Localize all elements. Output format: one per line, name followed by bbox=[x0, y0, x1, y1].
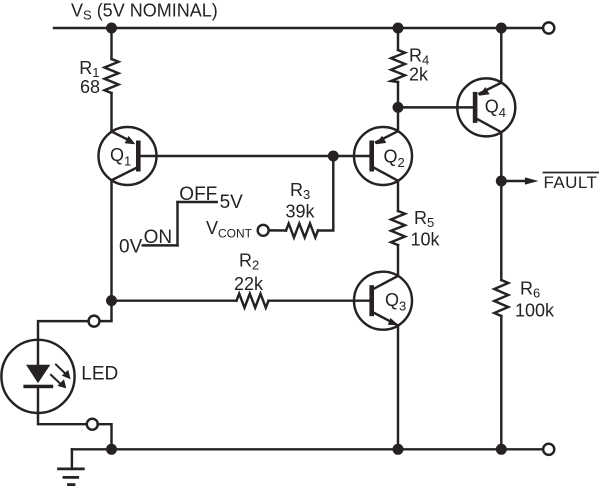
wire LED cathode to bottom terminal bbox=[38, 413, 87, 424]
node: R6 to rail bbox=[496, 444, 507, 455]
wire VCONT circle to R3 bbox=[269, 229, 286, 232]
terminal (open circle) top right bbox=[543, 22, 554, 33]
ground bbox=[59, 449, 84, 484]
wire Q1 base to Q2 base bbox=[141, 155, 370, 157]
arrowhead FAULT bbox=[525, 177, 539, 184]
wire Q1 collector down bbox=[110, 180, 112, 300]
node: base junction with R3 bbox=[328, 151, 339, 162]
node: rail to R4 junction bbox=[393, 23, 404, 34]
waveform: low level line bbox=[143, 244, 178, 246]
svg-text:R3: R3 bbox=[290, 180, 310, 202]
waveform: step edge bbox=[176, 202, 178, 245]
svg-text:VCONT: VCONT bbox=[206, 218, 253, 241]
transistor Q1 (PNP) bbox=[99, 127, 157, 185]
wire rail to R4 bbox=[397, 28, 399, 50]
wire R1 to Q1 emitter bbox=[110, 93, 112, 132]
svg-text:VS (5V NOMINAL): VS (5V NOMINAL) bbox=[71, 1, 218, 23]
power rail VS bbox=[54, 27, 543, 29]
svg-text:68: 68 bbox=[80, 77, 100, 97]
wire Q3 emitter to bottom rail bbox=[397, 326, 399, 450]
svg-text:OFF: OFF bbox=[179, 184, 217, 205]
wire Q2 emitter up bbox=[397, 107, 399, 131]
svg-text:R5: R5 bbox=[414, 208, 434, 230]
wire R2 to Q3 base bbox=[269, 299, 370, 301]
wire LED anode terminal to LED bbox=[38, 321, 89, 340]
svg-text:22k: 22k bbox=[234, 274, 264, 294]
node: LED return to rail bbox=[106, 444, 117, 455]
svg-text:Q3: Q3 bbox=[385, 290, 406, 314]
wire R4 to node bbox=[397, 82, 399, 107]
wire LED junction down bbox=[99, 301, 111, 322]
terminal (open circle) LED cathode bbox=[87, 419, 98, 430]
node: Q3 emitter to rail bbox=[393, 444, 404, 455]
FAULT overline bbox=[544, 172, 599, 174]
resistor R4 bbox=[391, 50, 405, 82]
wire R5 to Q3 collector bbox=[397, 245, 399, 276]
transistor Q4 (PNP) bbox=[457, 78, 515, 136]
resistor R2 bbox=[237, 294, 269, 308]
node: rail to R1 junction bbox=[106, 23, 117, 34]
terminal (open circle) bottom right bbox=[543, 444, 554, 455]
node: FAULT tap bbox=[496, 176, 507, 187]
wire Q4 emitter up bbox=[500, 28, 502, 83]
svg-text:FAULT: FAULT bbox=[544, 173, 598, 192]
wire node to R2 bbox=[112, 299, 237, 301]
resistor R5 bbox=[391, 211, 405, 245]
svg-text:5V: 5V bbox=[220, 192, 244, 213]
svg-text:10k: 10k bbox=[411, 230, 441, 250]
transistor Q3 (NPN) bbox=[354, 272, 412, 330]
transistor Q2 (PNP) bbox=[354, 127, 412, 185]
resistor R3 bbox=[286, 224, 318, 238]
svg-text:2k: 2k bbox=[409, 65, 429, 85]
bottom rail bbox=[72, 448, 543, 450]
wire R3 to corner bbox=[318, 156, 333, 231]
svg-text:0V: 0V bbox=[119, 236, 143, 257]
node: R4 / Q4 base / Q2 emitter junction bbox=[393, 102, 404, 113]
wire rail to R1 bbox=[110, 28, 112, 59]
svg-text:LED: LED bbox=[81, 364, 118, 385]
wire Q4 base bbox=[398, 106, 473, 108]
svg-text:ON: ON bbox=[144, 227, 173, 248]
svg-text:R6: R6 bbox=[520, 279, 540, 301]
resistor R1 bbox=[105, 59, 119, 93]
svg-text:100k: 100k bbox=[515, 301, 555, 321]
wire R6 to bottom rail bbox=[500, 316, 502, 449]
LED D1 bbox=[1, 340, 74, 413]
wire Q4 collector down to R6 bbox=[500, 132, 502, 280]
terminal (open circle) VCONT bbox=[258, 225, 269, 236]
wire Q2 collector to R5 bbox=[397, 181, 399, 211]
svg-text:Q4: Q4 bbox=[485, 97, 506, 121]
svg-text:Q1: Q1 bbox=[110, 145, 131, 169]
terminal (open circle) LED anode bbox=[89, 316, 100, 327]
svg-text:39k: 39k bbox=[286, 201, 316, 221]
node: Q1 collector / R2 / LED junction bbox=[106, 295, 117, 306]
node: rail to Q4 emitter bbox=[496, 23, 507, 34]
svg-text:Q2: Q2 bbox=[384, 147, 405, 171]
svg-text:R2: R2 bbox=[239, 251, 259, 273]
wire FAULT arrow bbox=[501, 180, 526, 182]
resistor R6 bbox=[494, 280, 508, 316]
waveform: high level line bbox=[178, 201, 217, 203]
wire cathode terminal to rail bbox=[98, 424, 112, 449]
